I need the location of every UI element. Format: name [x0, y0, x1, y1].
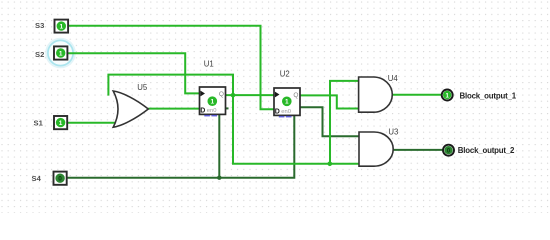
wire: feedback from U1 Q node up and back to U5 upper input (high) [108, 75, 233, 96]
svg-text:1: 1 [59, 120, 63, 127]
svg-text:U3: U3 [388, 128, 398, 137]
svg-text:D: D [275, 109, 280, 116]
wire: input S3 to U2 D input (high) [68, 26, 274, 110]
input S4 (low) [54, 172, 67, 185]
wire: net S4 (low) from input S4 to U2 enable, dark green [66, 115, 294, 177]
and-gate U3 [359, 132, 393, 166]
svg-text:1: 1 [210, 99, 214, 106]
flip-flop U1 [200, 87, 226, 116]
wire: U4 output to Block_output_1 (high) [392, 94, 441, 96]
flip-flop U2 [274, 88, 300, 117]
wire: U3 output (low) to Block_output_2, dark green [393, 149, 442, 151]
wire: U2 Qbar (low) to U3 top input, dark green [300, 107, 359, 136]
selection halo around input S2 [46, 39, 74, 67]
output Block_output_2 (low) [443, 145, 454, 156]
svg-text:U2: U2 [280, 69, 290, 78]
wire: input S2 to U1 clock input (high) [67, 53, 200, 93]
svg-text:0: 0 [58, 176, 62, 183]
svg-text:D: D [200, 108, 205, 115]
or-gate U5 [113, 91, 148, 127]
wire: U1 Q output to U2 clock input (high) [226, 94, 275, 96]
svg-text:Q: Q [219, 91, 224, 98]
svg-text:Block_output_2: Block_output_2 [458, 146, 515, 155]
svg-text:en0: en0 [207, 108, 217, 114]
svg-text:S4: S4 [32, 174, 42, 183]
svg-text:S3: S3 [35, 21, 44, 30]
junction on net S4 at U1 enable branch [217, 176, 221, 180]
wire: U5 output to U1 D input (high) [148, 108, 199, 110]
stub: U1 Qbar pin (low), dark green [226, 107, 229, 109]
svg-text:1: 1 [285, 99, 289, 106]
output Block_output_1 (high) [442, 90, 453, 101]
wire: U1 Q node down to lower bus toward U3/U4 (high) [233, 95, 359, 164]
svg-text:1: 1 [59, 50, 63, 57]
input S3 [55, 20, 69, 33]
svg-text:U1: U1 [204, 59, 214, 68]
svg-text:1: 1 [59, 23, 63, 30]
svg-text:en0: en0 [281, 109, 291, 115]
junction on U1 Q node [231, 93, 236, 98]
svg-text:U5: U5 [137, 83, 148, 92]
wire: branch up from lower bus to U4 top input (high) [330, 81, 359, 164]
svg-text:U4: U4 [388, 74, 399, 83]
svg-text:Block_output_1: Block_output_1 [460, 91, 517, 100]
and-gate U4 [359, 77, 393, 112]
svg-text:S2: S2 [35, 50, 44, 59]
svg-text:Q: Q [293, 92, 298, 99]
input S2 [54, 46, 67, 59]
input S1 [54, 116, 67, 129]
wire: branch of net S4 up to U1 enable (dark green) [218, 114, 220, 178]
wire: input S1 to U5 lower input (high) [67, 122, 116, 124]
svg-text:S1: S1 [34, 119, 44, 128]
wire: U2 Q output to U4 bottom input (high) [300, 95, 359, 108]
junction on lower bus at U4 branch [328, 162, 333, 167]
